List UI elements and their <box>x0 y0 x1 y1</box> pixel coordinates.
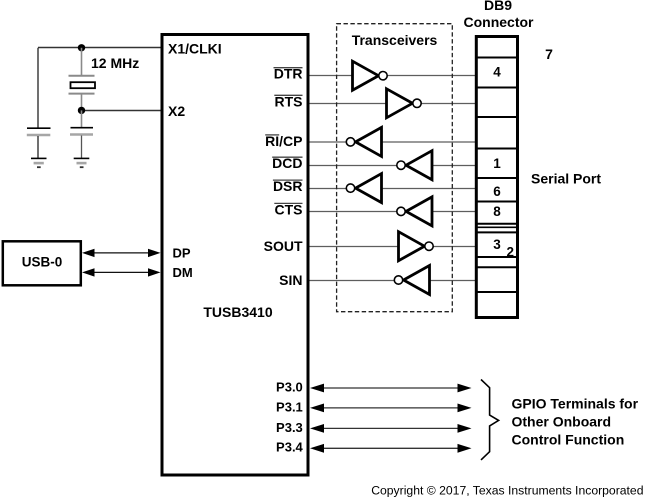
wire DCD <box>309 165 475 167</box>
wire X1/CLKI net from crystal to U1 <box>38 47 162 49</box>
svg-text:1: 1 <box>493 156 501 171</box>
label GPIO Terminals <box>512 395 639 447</box>
svg-text:DP: DP <box>173 246 191 261</box>
wire P3.4 double arrow <box>310 444 472 453</box>
transceivers dashed enclosure <box>337 24 453 312</box>
svg-text:GPIO Terminals for: GPIO Terminals for <box>512 395 639 411</box>
svg-text:3: 3 <box>493 237 501 252</box>
svg-text:TUSB3410: TUSB3410 <box>203 304 272 320</box>
pin CTS <box>274 201 302 217</box>
svg-text:Other Onboard: Other Onboard <box>512 414 612 430</box>
svg-text:Control Function: Control Function <box>512 432 625 448</box>
svg-text:Transceivers: Transceivers <box>352 32 438 48</box>
wire CTS <box>309 211 475 213</box>
svg-text:P3.1: P3.1 <box>276 399 303 414</box>
svg-text:6: 6 <box>493 184 501 199</box>
svg-text:12 MHz: 12 MHz <box>91 55 139 71</box>
node X1 junction <box>78 44 85 51</box>
wire P3.3 double arrow <box>310 424 472 433</box>
pin DCD <box>272 155 302 171</box>
wire left branch vertical <box>37 48 39 128</box>
wire SOUT <box>309 246 475 248</box>
svg-text:2: 2 <box>507 244 515 259</box>
buffer driver RTS <box>387 89 422 118</box>
svg-text:DB9: DB9 <box>484 0 512 13</box>
wire P3.1 double arrow <box>310 404 472 413</box>
node X2 junction <box>78 107 85 114</box>
wire DM double arrow <box>82 268 161 276</box>
svg-text:Connector: Connector <box>464 14 535 30</box>
wire X2 net from crystal to U1 <box>82 110 163 112</box>
svg-text:P3.4: P3.4 <box>276 440 304 455</box>
svg-text:DM: DM <box>173 265 193 280</box>
svg-text:SIN: SIN <box>279 272 302 288</box>
pin DSR <box>273 178 303 194</box>
capacitor C1 <box>27 128 51 158</box>
svg-text:P3.0: P3.0 <box>276 379 303 394</box>
svg-text:8: 8 <box>493 204 501 219</box>
buffer receiver SIN <box>394 266 429 295</box>
svg-text:USB-0: USB-0 <box>22 254 63 269</box>
wire DP double arrow <box>82 249 161 257</box>
svg-text:Copyright © 2017, Texas Instru: Copyright © 2017, Texas Instruments Inco… <box>371 484 643 498</box>
brace for GPIO group <box>481 380 499 460</box>
wire RTS <box>309 103 475 105</box>
buffer receiver DCD <box>397 151 432 180</box>
svg-text:X2: X2 <box>168 103 185 119</box>
crystal Y1 12 MHz <box>69 48 96 111</box>
svg-text:P3.3: P3.3 <box>276 420 303 435</box>
svg-text:Serial Port: Serial Port <box>531 170 601 186</box>
USB-0 connector J1 <box>3 241 81 285</box>
buffer receiver CTS <box>397 197 432 226</box>
capacitor C2 <box>70 110 93 158</box>
wire DSR <box>309 188 475 190</box>
ground (left) <box>31 158 47 167</box>
DB9 connector J2 <box>475 37 518 318</box>
wire SIN <box>309 280 475 282</box>
pin DTR <box>274 66 303 82</box>
wire DTR <box>309 75 475 77</box>
label DB9 Connector <box>464 0 535 30</box>
buffer receiver RI/CP <box>346 127 381 156</box>
pin RI/CP <box>265 133 302 149</box>
op U1 TUSB3410 block <box>162 35 308 476</box>
ground (right) <box>74 158 90 167</box>
svg-text:X1/CLKI: X1/CLKI <box>168 41 222 57</box>
wire P3.0 double arrow <box>310 384 472 393</box>
svg-text:7: 7 <box>545 46 553 62</box>
buffer driver SOUT <box>399 232 434 261</box>
buffer driver DTR <box>353 61 388 90</box>
svg-text:4: 4 <box>493 65 501 80</box>
pin RTS <box>274 93 302 109</box>
wire RI/CP <box>309 141 475 143</box>
buffer receiver DSR <box>346 174 381 203</box>
svg-text:SOUT: SOUT <box>264 238 303 254</box>
